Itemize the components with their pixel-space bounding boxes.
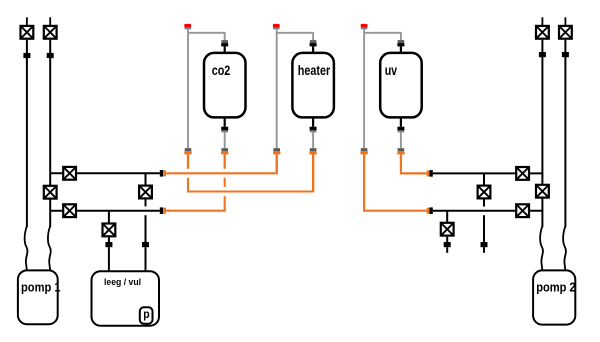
pump P1 (pomp 1)	[18, 270, 58, 324]
valve V6 (drain to leeg/vul)	[103, 224, 116, 237]
valve V12 (top-right)	[536, 26, 549, 39]
vessel heater	[292, 53, 334, 118]
connector co2-red stem orange cap	[184, 151, 191, 154]
wire heater gray elbow to vessel top	[277, 33, 313, 40]
connector co2 bottom gray bar	[221, 130, 228, 132]
wire uv gray elbow to vessel top	[364, 33, 401, 40]
wire co2-red gray stem	[187, 29, 189, 148]
junction D1	[105, 242, 112, 247]
connector heater top black bar	[310, 43, 317, 46]
connector heater-red stem gray cap	[273, 148, 280, 151]
wire right lower line black	[433, 210, 543, 212]
connector line3 black bar	[160, 207, 163, 214]
wire co2 gray elbow to vessel top	[188, 33, 225, 40]
red cap base bar	[273, 28, 280, 30]
connector line1 orange bar	[163, 170, 166, 176]
wire co2 vessel stem orange segments with crossover gaps	[224, 154, 226, 169]
connector co2 top black bar	[221, 43, 228, 46]
wire heater bottom gray stem	[312, 132, 314, 148]
wire below valve V10 with crossover gap	[483, 200, 485, 207]
wire pipe D down	[564, 40, 566, 227]
connector co2-red stem gray cap	[185, 148, 192, 151]
valve V2 (top-left second)	[44, 26, 57, 39]
vessel uv	[380, 53, 422, 118]
junction D3	[481, 242, 488, 247]
svg-text:leeg / vul: leeg / vul	[104, 277, 141, 288]
connector uv top black bar	[397, 43, 404, 46]
wire wavy D into pump 2	[563, 226, 566, 271]
connector lower orange bar	[427, 208, 430, 214]
wire co2 top stub	[224, 46, 226, 53]
wire below valve V7 with crossover gap at line3	[145, 200, 147, 207]
junction A1	[23, 53, 30, 58]
valve V8 (right upper line)	[516, 167, 529, 180]
svg-text:uv: uv	[385, 62, 398, 78]
connector uv bottom gray bar	[398, 130, 405, 132]
red cap heater feed	[273, 24, 280, 28]
wire co2-red stem orange upper segment	[187, 154, 189, 169]
wire co2 bottom gray stem	[224, 132, 226, 148]
connector line3 orange bar	[163, 208, 166, 214]
connector heater bottom gray bar	[310, 130, 317, 132]
wire to pressure gauge	[145, 247, 147, 307]
svg-text:p: p	[143, 309, 149, 321]
connector upper orange bar	[427, 170, 430, 176]
svg-text:heater: heater	[298, 62, 331, 78]
wire co2 bottom stub	[224, 117, 226, 126]
red cap base bar	[361, 28, 368, 30]
vessel co2	[204, 53, 246, 118]
wire wavy C into pump 2	[540, 226, 543, 271]
valve V5 (on line3)	[63, 204, 76, 217]
gauge P (pressure)	[140, 307, 153, 323]
valve V13 (on pipe C)	[536, 185, 549, 198]
junction D4	[444, 242, 451, 247]
connector upper black bar	[430, 170, 433, 177]
valve V10 (right middle)	[478, 186, 491, 199]
connector co2 stem gray cap	[221, 148, 228, 151]
valve V14 (top-right second)	[559, 26, 572, 39]
connector co2 stem orange cap	[221, 151, 228, 154]
wire heater bottom stub	[312, 117, 314, 126]
wire stem above valve V2	[49, 17, 51, 25]
valve V9 (right lower line)	[516, 204, 529, 217]
wire uv-red gray stem	[363, 29, 365, 148]
wire below valve V6	[108, 237, 110, 242]
wire line3 black	[50, 210, 160, 212]
wire uv bottom stub	[400, 117, 402, 126]
svg-text:pomp 2: pomp 2	[536, 279, 576, 294]
wire stub end	[483, 247, 485, 253]
connector uv stem gray cap	[398, 148, 405, 151]
wire right upper line black	[433, 172, 543, 174]
wire stem above valve V12	[541, 17, 543, 25]
wire pipe A down	[26, 40, 28, 227]
wire uv vessel orange to right upper line	[401, 154, 427, 173]
pump P2 (pomp 2)	[533, 270, 575, 324]
wire wavy A into pump 1	[25, 226, 28, 271]
connector lower black bar	[430, 207, 433, 214]
red cap co2 feed	[184, 24, 191, 28]
wire branch from line3 down	[108, 211, 110, 223]
vessel T1 (leeg / vul)	[92, 271, 160, 326]
valve V11 (right drain)	[441, 223, 454, 236]
wire into leeg/vul vessel	[108, 247, 110, 272]
wire wavy B into pump 1	[48, 226, 51, 271]
red cap base bar	[184, 28, 191, 30]
red cap uv feed	[361, 24, 368, 28]
wire heater vessel orange drop to line2	[312, 154, 314, 191]
wire branch from line1 down	[145, 173, 147, 184]
valve V7 (gauge branch)	[139, 186, 152, 199]
junction B1	[47, 53, 54, 58]
connector heater top gray cap	[310, 40, 317, 43]
wire line3 orange to co2 vessel stem	[166, 196, 225, 211]
valve V4 (on line1)	[63, 167, 76, 180]
wire pipe C down	[541, 40, 543, 227]
wire stem above valve V14	[564, 17, 566, 25]
junction C1	[539, 52, 546, 57]
wire uv bottom gray stem	[400, 132, 402, 148]
connector uv stem orange cap	[397, 151, 404, 154]
valve V3 (on pipe B)	[44, 186, 57, 199]
wire stem above valve V1	[26, 17, 28, 25]
connector uv top gray cap	[398, 40, 405, 43]
connector heater stem orange cap	[309, 151, 316, 154]
connector co2 bottom black bar	[221, 127, 228, 131]
junction D2	[142, 242, 149, 247]
wire heater top stub	[312, 46, 314, 53]
wire stub end	[446, 247, 448, 253]
wire line1 orange to heater-red stem	[166, 154, 277, 173]
wire line2 orange co2-red stem to heater vessel stem	[188, 154, 313, 191]
valve V1 (top-left)	[21, 26, 34, 39]
connector heater bottom black bar	[310, 127, 317, 131]
connector uv-red stem gray cap	[361, 148, 368, 151]
connector heater-red stem orange cap	[273, 151, 280, 154]
wire below valve V11	[446, 237, 448, 243]
connector uv bottom black bar	[397, 127, 404, 131]
junction D5	[562, 52, 569, 57]
wire branch from upper line down	[483, 173, 485, 184]
wire heater-red orange drop to line1	[276, 154, 278, 173]
wire line1 black	[50, 172, 160, 174]
wire uv top stub	[400, 46, 402, 53]
svg-text:co2: co2	[212, 62, 231, 78]
wire uv-red orange to right lower line	[364, 154, 427, 211]
connector uv-red stem orange cap	[360, 151, 367, 154]
connector line1 black bar	[160, 170, 163, 177]
wire pipe B down	[49, 40, 51, 227]
wire heater-red gray stem	[276, 29, 278, 148]
connector heater stem gray cap	[310, 148, 317, 151]
connector co2 top gray cap	[221, 40, 228, 43]
wire branch from lower line down	[446, 211, 448, 222]
svg-text:pomp 1: pomp 1	[21, 279, 61, 294]
